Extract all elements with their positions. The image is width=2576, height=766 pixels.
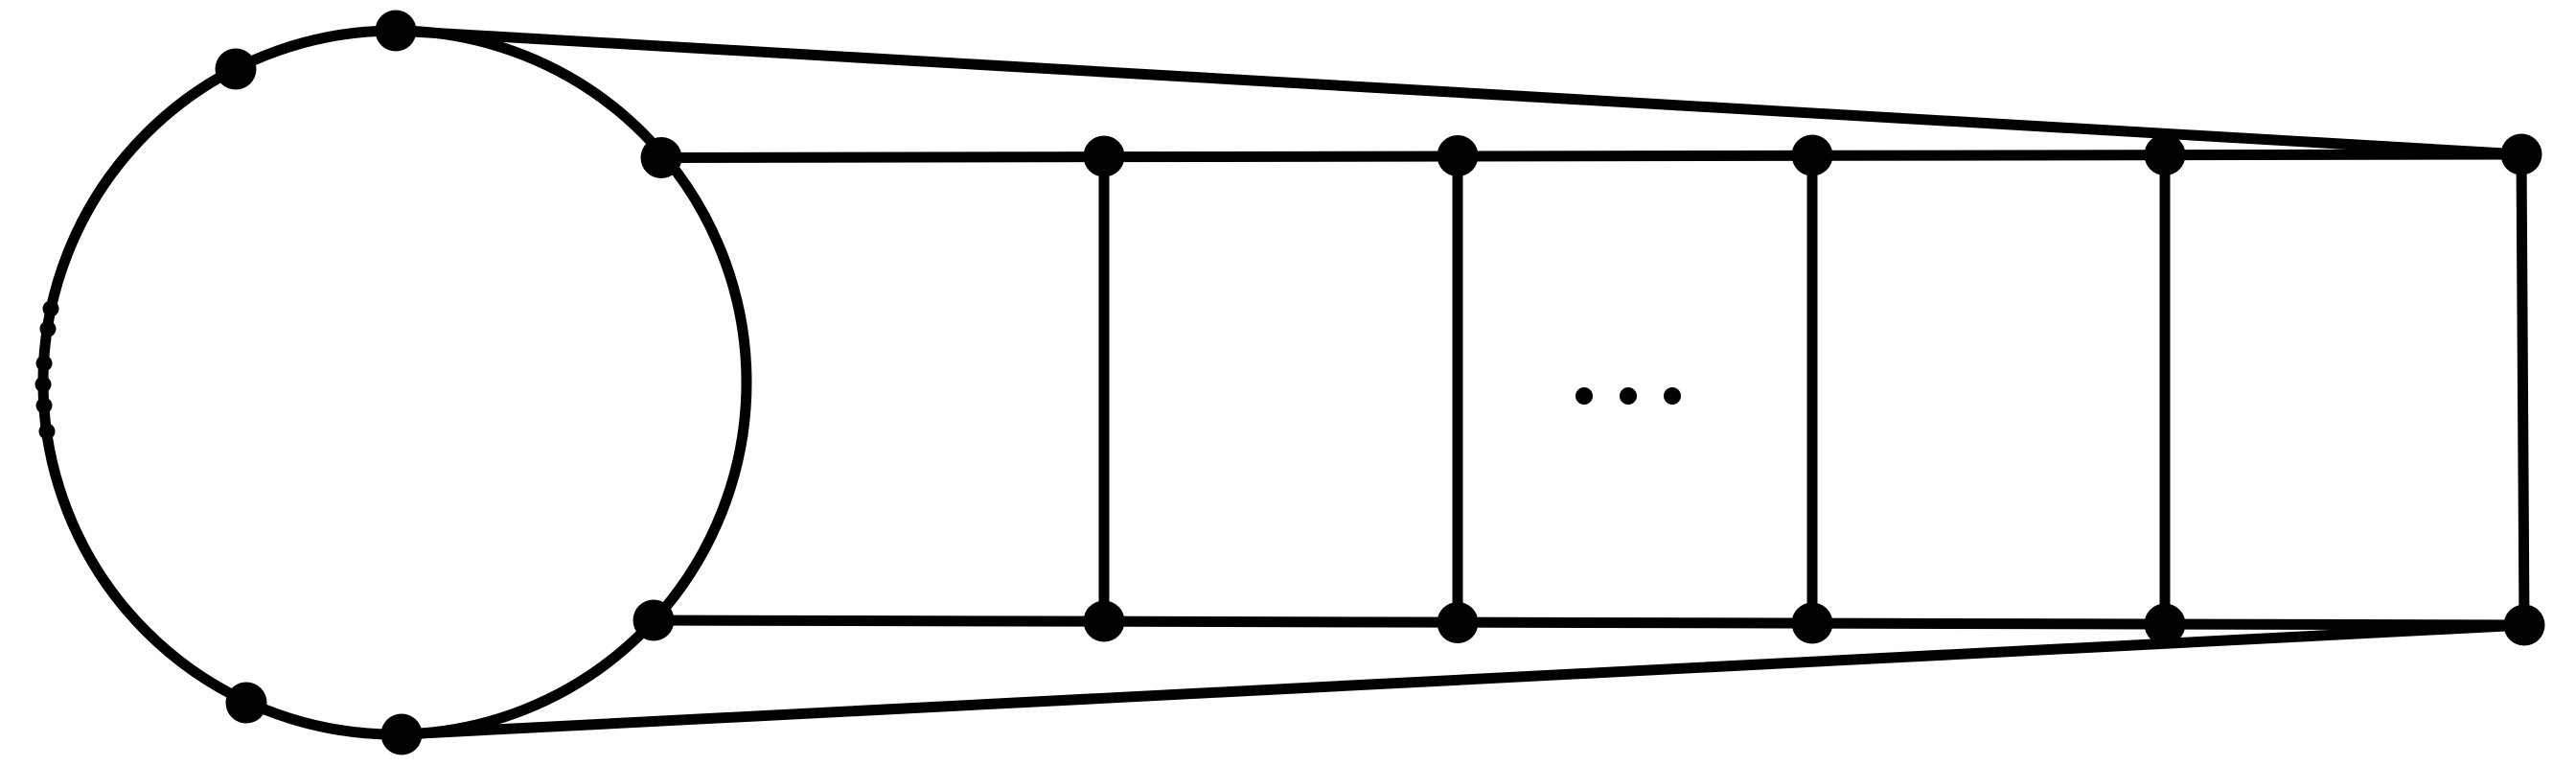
small arc dot 4 (cycle continuation)	[35, 377, 52, 393]
node F (ladder bottom-left on circle)	[633, 600, 675, 641]
small arc dot 6 (cycle continuation)	[39, 424, 56, 440]
wire top chord	[396, 31, 2521, 154]
wire rung 1	[1099, 156, 1110, 621]
node D (circle bottom vertex)	[381, 714, 423, 755]
wire bottom rail	[654, 620, 2524, 625]
node top 2	[1084, 136, 1125, 177]
node E (ladder top-left on circle)	[641, 137, 682, 178]
ellipsis dot 3 (ladder continuation)	[1664, 387, 1681, 405]
wire rung 3	[1807, 155, 1818, 623]
small arc dot 2 (cycle continuation)	[40, 321, 57, 337]
node top 4	[1792, 135, 1833, 176]
node bottom 2	[1084, 601, 1125, 642]
wire rung 5 (right edge)	[2521, 154, 2524, 625]
ellipsis dot 1 (ladder continuation)	[1575, 387, 1593, 405]
cycle C (left circle)	[43, 31, 747, 734]
node B (circle upper-left vertex)	[216, 49, 257, 90]
node bottom 3	[1437, 602, 1479, 643]
node bottom right corner	[2504, 605, 2545, 646]
node A (circle top vertex)	[376, 11, 417, 52]
ellipsis dot 2 (ladder continuation)	[1620, 387, 1637, 405]
wire top rail	[661, 154, 2521, 158]
small arc dot 5 (cycle continuation)	[36, 398, 53, 414]
small arc dot 1 (cycle continuation)	[43, 301, 59, 317]
node top right corner	[2501, 134, 2542, 175]
wire rung 4	[2160, 155, 2171, 625]
wire rung 2	[1453, 156, 1463, 623]
node bottom 5	[2145, 604, 2186, 645]
node top 5	[2145, 134, 2186, 175]
node bottom 4	[1792, 603, 1833, 644]
wire bottom chord	[402, 625, 2524, 734]
node top 3	[1437, 135, 1479, 176]
node C (circle lower-left vertex)	[226, 683, 267, 724]
small arc dot 3 (cycle continuation)	[36, 356, 53, 372]
